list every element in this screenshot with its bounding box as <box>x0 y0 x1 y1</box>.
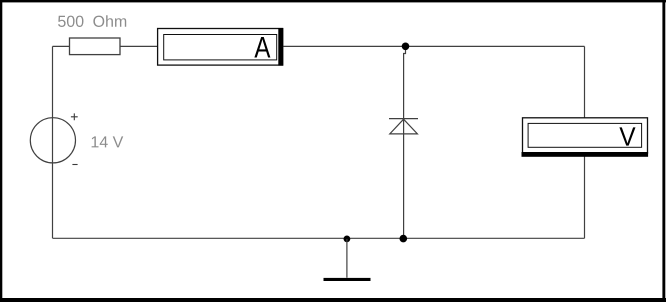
wire: diode branch vertical (with small jog under top node) <box>404 46 406 238</box>
junction node: bottom diode tap <box>400 235 408 243</box>
wire: top rail, node to resistor <box>53 45 70 47</box>
ground <box>324 239 371 281</box>
polarity mark + <box>71 113 78 120</box>
voltmeter (meter V) <box>522 118 649 157</box>
wire: right vertical down to voltmeter top <box>584 46 586 117</box>
polarity mark - <box>72 164 77 166</box>
wire: junction node to top-right corner <box>406 45 585 47</box>
diode D1 <box>389 119 418 134</box>
wire: bottom rail <box>53 237 585 239</box>
resistor R1 <box>70 38 121 55</box>
junction node: ground tap <box>344 236 351 243</box>
wire: left vertical from top node down through source to bottom rail <box>52 46 54 238</box>
value label "500 Ohm" <box>58 15 126 27</box>
wire: resistor to ammeter <box>120 45 158 47</box>
junction node: top (diode tap) <box>402 43 410 51</box>
ammeter (meter A) <box>158 28 284 66</box>
wire: ammeter to junction node (top) <box>283 45 405 47</box>
value label "14 V" <box>92 136 124 147</box>
voltage source V1 <box>30 118 75 163</box>
wire: voltmeter bottom down to bottom rail <box>584 157 586 239</box>
